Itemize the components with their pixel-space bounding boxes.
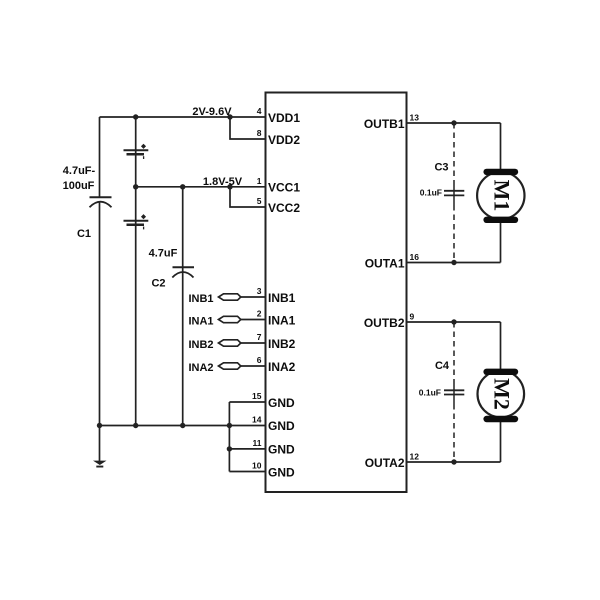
- wire VDD rail (2V-9.6V to pin 4): [100, 116, 266, 118]
- wire VCC rail (1.8V-5V to pin 1): [136, 186, 266, 188]
- wire pin 2 INA1: [241, 319, 266, 321]
- svg-text:4: 4: [257, 106, 262, 116]
- svg-text:INA1: INA1: [188, 315, 213, 327]
- wire pin 11 GND: [229, 448, 265, 450]
- capacitor C3 body: [444, 185, 464, 205]
- wire pin 8 VDD2 branch: [230, 117, 266, 139]
- svg-text:C1: C1: [77, 228, 91, 240]
- svg-text:M1: M1: [490, 180, 515, 212]
- ground symbol: [93, 461, 107, 468]
- svg-text:4.7uF-: 4.7uF-: [63, 165, 96, 177]
- svg-text:100uF: 100uF: [63, 180, 95, 192]
- wire ground stem: [99, 426, 101, 462]
- svg-text:VCC2: VCC2: [268, 201, 300, 215]
- wire C2 vertical: [182, 187, 184, 426]
- svg-text:2V-9.6V: 2V-9.6V: [192, 106, 232, 118]
- svg-text:4.7uF: 4.7uF: [149, 248, 178, 260]
- svg-text:INB2: INB2: [268, 337, 296, 351]
- svg-text:INB1: INB1: [268, 291, 296, 305]
- capacitor C4 dashed link lower: [453, 404, 455, 462]
- svg-text:OUTB1: OUTB1: [364, 117, 405, 131]
- svg-text:6: 6: [257, 355, 262, 365]
- svg-text:GND: GND: [268, 419, 295, 433]
- node pin 12 wire at C4: [451, 459, 456, 464]
- node ground bus at GND pin bus: [227, 423, 232, 428]
- node pin 13 wire at C3: [451, 120, 456, 125]
- wire M2 branch lower: [500, 421, 502, 462]
- svg-text:OUTA2: OUTA2: [365, 456, 405, 470]
- polarized capacitor 1 body (bulk, upper): [124, 144, 149, 159]
- svg-text:0.1uF: 0.1uF: [420, 188, 442, 198]
- svg-text:VDD2: VDD2: [268, 133, 300, 147]
- node VDD rail junction: [227, 114, 232, 119]
- svg-text:15: 15: [252, 391, 262, 401]
- wire pin 13 OUTB1: [407, 122, 501, 124]
- capacitor C3 dashed link upper: [453, 123, 455, 185]
- svg-text:2: 2: [257, 309, 262, 319]
- capacitor C2 body: [172, 267, 194, 277]
- svg-text:1: 1: [257, 176, 262, 186]
- svg-text:10: 10: [252, 461, 262, 471]
- svg-text:OUTB2: OUTB2: [364, 316, 405, 330]
- svg-text:OUTA1: OUTA1: [365, 256, 405, 270]
- svg-text:C3: C3: [434, 162, 448, 174]
- wire C1 vertical (VDD rail down to ground bus): [99, 117, 101, 197]
- wire M1 branch upper: [500, 123, 502, 170]
- svg-text:INB2: INB2: [188, 339, 213, 351]
- svg-text:GND: GND: [268, 396, 295, 410]
- svg-text:INA2: INA2: [268, 360, 296, 374]
- svg-text:0.1uF: 0.1uF: [419, 388, 441, 398]
- capacitor C4 body: [444, 384, 464, 404]
- svg-text:8: 8: [257, 128, 262, 138]
- svg-text:3: 3: [257, 286, 262, 296]
- svg-text:5: 5: [257, 196, 262, 206]
- svg-text:13: 13: [410, 113, 420, 123]
- node ground bus at C1: [97, 423, 102, 428]
- svg-text:1.8V-5V: 1.8V-5V: [203, 176, 243, 188]
- svg-text:12: 12: [410, 452, 420, 462]
- node VCC rail junction at branch: [227, 184, 232, 189]
- connector INB1 port symbol: [219, 294, 241, 300]
- svg-text:INA2: INA2: [188, 362, 213, 374]
- connector INA1 port symbol: [219, 316, 241, 322]
- svg-text:C4: C4: [435, 360, 450, 372]
- svg-text:VCC1: VCC1: [268, 181, 300, 195]
- wire pin 12 OUTA2: [407, 461, 501, 463]
- wire pin 15 GND: [229, 401, 265, 403]
- node pin 16 wire at C3: [451, 260, 456, 265]
- svg-text:16: 16: [410, 252, 420, 262]
- wire M1 branch lower: [500, 222, 502, 263]
- capacitor C3 dashed link lower: [453, 205, 455, 263]
- wire pin 5 VCC2 branch: [230, 187, 266, 207]
- node pin 9 wire at C4: [451, 319, 456, 324]
- node VCC rail junction at C2: [180, 184, 185, 189]
- capacitor C1 body: [90, 197, 112, 207]
- node ground bus at bulk cap: [133, 423, 138, 428]
- wire pin 6 INA2: [241, 365, 266, 367]
- motor M2 symbol: [478, 369, 525, 423]
- svg-text:INB1: INB1: [188, 293, 213, 305]
- wire bulk cap vertical: [135, 117, 137, 426]
- svg-text:INA1: INA1: [268, 313, 296, 327]
- svg-text:GND: GND: [268, 443, 295, 457]
- connector INA2 port symbol: [219, 363, 241, 369]
- capacitor C4 dashed link upper: [453, 322, 455, 384]
- svg-text:VDD1: VDD1: [268, 111, 300, 125]
- IC U1 body: [266, 93, 407, 493]
- wire pin 9 OUTB2: [407, 321, 501, 323]
- svg-text:9: 9: [410, 312, 415, 322]
- svg-text:11: 11: [253, 438, 262, 448]
- svg-text:GND: GND: [268, 465, 295, 479]
- wire ground bus horizontal (to pin 14): [100, 425, 266, 427]
- wire pin 16 OUTA1: [407, 262, 501, 264]
- svg-text:M2: M2: [490, 378, 515, 410]
- svg-text:C2: C2: [151, 278, 165, 290]
- node ground bus at C2: [180, 423, 185, 428]
- node top rail junction at bulk cap: [133, 114, 138, 119]
- wire pin 7 INB2: [241, 342, 266, 344]
- svg-text:7: 7: [257, 332, 262, 342]
- wire pin 3 INB1: [241, 296, 266, 298]
- svg-text:14: 14: [252, 415, 262, 425]
- wire M2 branch upper: [500, 322, 502, 369]
- wire GND pin bus vertical: [228, 402, 230, 472]
- connector INB2 port symbol: [219, 340, 241, 346]
- node VCC rail junction at bulk cap: [133, 184, 138, 189]
- wire pin 10 GND: [229, 471, 265, 473]
- motor M1 symbol: [477, 169, 524, 223]
- node GND bus at pin 11: [227, 446, 232, 451]
- polarized capacitor 2 body (bulk, lower): [124, 214, 149, 229]
